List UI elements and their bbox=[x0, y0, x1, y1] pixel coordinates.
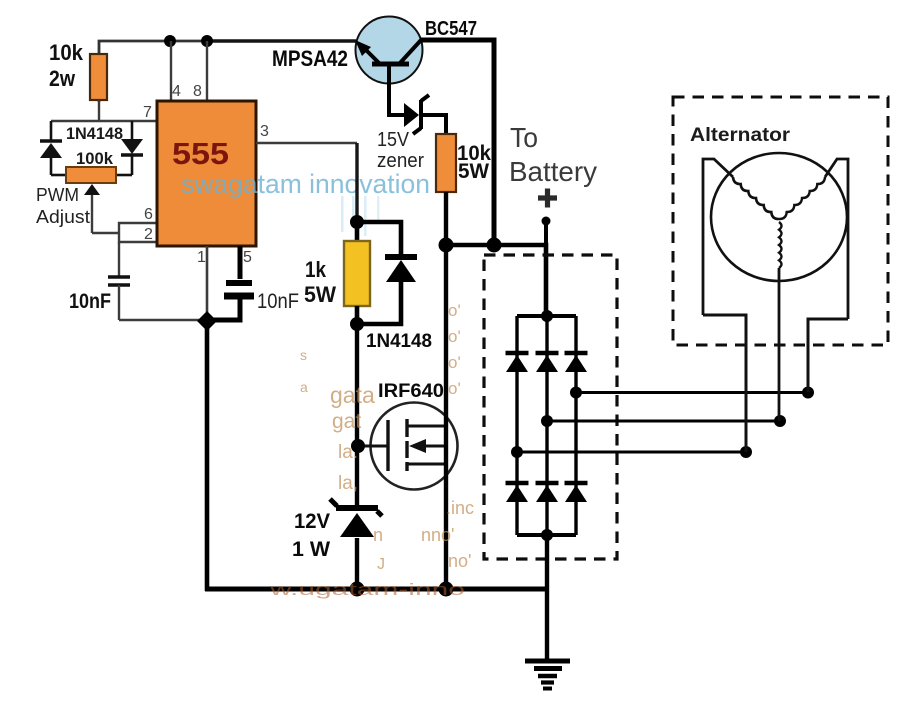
svg-text:gata: gata bbox=[330, 382, 375, 408]
svg-text:J: J bbox=[377, 556, 385, 573]
wire collector to battery line bbox=[420, 40, 494, 245]
svg-text:1 W: 1 W bbox=[292, 538, 330, 561]
wire 1k bottom to gate bbox=[355, 306, 360, 324]
svg-text:PWM: PWM bbox=[36, 185, 79, 205]
node battery tap dot bbox=[542, 217, 551, 226]
svg-text:o': o' bbox=[448, 379, 461, 398]
svg-text:4: 4 bbox=[172, 83, 181, 100]
wire pin7 rail bbox=[51, 120, 157, 122]
svg-text:o': o' bbox=[448, 301, 461, 320]
svg-text:BC547: BC547 bbox=[425, 18, 477, 40]
wire pin8 drop bbox=[206, 41, 208, 103]
wire left main vertical to bottom rail bbox=[205, 321, 210, 591]
node phase tap right bbox=[570, 387, 582, 399]
node phase end dot 1 bbox=[802, 387, 814, 399]
wire drain-source vertical bbox=[444, 245, 448, 591]
wire phase line 3 bbox=[517, 451, 746, 454]
svg-text:1k: 1k bbox=[305, 257, 327, 282]
wire pin3 vertical bbox=[355, 143, 358, 222]
wire node to capacitor C1 bbox=[118, 242, 120, 277]
wire positive rail bbox=[446, 245, 546, 316]
node drain rail dot bbox=[439, 238, 454, 253]
op-amp/timer U1 555 bbox=[157, 101, 256, 246]
svg-text:6: 6 bbox=[144, 206, 153, 223]
svg-text:n: n bbox=[373, 525, 383, 545]
wire bottom rail bbox=[205, 587, 547, 592]
svg-text:s: s bbox=[300, 347, 307, 363]
svg-text:gat: gat bbox=[332, 410, 361, 433]
transistor Q2 IRF640 mosfet bbox=[358, 403, 458, 490]
node junction ground of 555 bbox=[197, 311, 217, 331]
zener Z2 12V bbox=[330, 499, 382, 591]
svg-text:5: 5 bbox=[243, 249, 252, 266]
wire pin4 drop bbox=[170, 41, 172, 103]
watermark tan fragments bbox=[300, 301, 474, 573]
potentiometer R2 100k bbox=[51, 167, 132, 233]
wire resistor R1 to pin7 rail bbox=[98, 100, 100, 121]
svg-text:1N4148: 1N4148 bbox=[66, 124, 123, 143]
svg-text:5W: 5W bbox=[304, 282, 336, 307]
wire bridge right leg bbox=[574, 316, 577, 535]
svg-text:o': o' bbox=[448, 353, 461, 372]
wire alternator left bracket bottom bbox=[703, 315, 746, 452]
wire top rail bbox=[99, 41, 356, 102]
svg-text:5W: 5W bbox=[458, 160, 489, 183]
capacitor C2 10nF (pin5) bbox=[210, 246, 299, 320]
svg-text:MPSA42: MPSA42 bbox=[272, 46, 348, 71]
diode D5 bridge upper-right bbox=[565, 353, 588, 372]
wire pins 6-2 bracket bbox=[119, 223, 157, 242]
zener Z1 15V bbox=[389, 64, 446, 134]
svg-text:1N4148: 1N4148 bbox=[366, 331, 432, 352]
node phase tap middle bbox=[541, 415, 553, 427]
ground bbox=[525, 661, 570, 689]
node bridge minus dot bbox=[541, 529, 553, 541]
node junction dot top left bbox=[164, 35, 176, 47]
label To Battery bbox=[509, 122, 597, 208]
svg-text:10k: 10k bbox=[49, 40, 84, 65]
svg-text:zener: zener bbox=[377, 150, 424, 172]
svg-text:no': no' bbox=[448, 551, 471, 571]
node phase tap left bbox=[511, 446, 523, 458]
svg-text:2: 2 bbox=[144, 226, 153, 243]
svg-text:a: a bbox=[300, 379, 308, 395]
node junction dot top pin8 bbox=[201, 35, 213, 47]
svg-text:Battery: Battery bbox=[509, 156, 597, 187]
wire bridge minus to ground bbox=[545, 535, 549, 661]
svg-text:o': o' bbox=[448, 327, 461, 346]
diode D8 bridge lower-right bbox=[565, 483, 588, 502]
svg-text:10nF: 10nF bbox=[257, 290, 299, 313]
node bottom rail dot right bbox=[439, 582, 454, 597]
alternator stator circle bbox=[711, 153, 847, 281]
transistor Q1 MPSA42/BC547 bbox=[355, 17, 423, 84]
node bridge plus dot bbox=[541, 310, 553, 322]
diode D9 1N4148 (across 1k) bbox=[357, 222, 417, 324]
diode D2 1N4148 right bbox=[121, 121, 143, 175]
wire battery plus bbox=[544, 221, 548, 245]
wire phase line 1 bbox=[576, 391, 808, 394]
alternator dashed box bbox=[673, 97, 888, 345]
wire gate drive vertical bbox=[355, 324, 359, 508]
node below 1k dot bbox=[350, 317, 364, 331]
resistor R4 1k 5W bbox=[304, 222, 370, 307]
winding right arm bbox=[825, 159, 848, 319]
svg-text:To: To bbox=[510, 122, 538, 153]
svg-text:555: 555 bbox=[172, 136, 229, 171]
wire bridge bottom bar bbox=[517, 533, 576, 537]
bridge rectifier dashed box bbox=[484, 255, 617, 559]
svg-text:2w: 2w bbox=[49, 66, 76, 91]
svg-text:la,: la, bbox=[338, 473, 358, 494]
svg-text:nno': nno' bbox=[421, 525, 454, 545]
wire phase line 2 bbox=[547, 420, 780, 423]
svg-text:1: 1 bbox=[197, 249, 206, 266]
node bottom rail dot left bbox=[350, 582, 365, 597]
wire pin1 down bbox=[206, 246, 209, 321]
svg-text:Adjust: Adjust bbox=[36, 207, 90, 227]
svg-text:IRF640: IRF640 bbox=[378, 381, 444, 402]
diode D1 1N4148 left bbox=[40, 121, 62, 175]
diode D6 bridge lower-left bbox=[506, 483, 529, 502]
wire bridge left leg bbox=[515, 316, 518, 535]
svg-text:12V: 12V bbox=[294, 510, 330, 533]
resistor R1 10k 2w bbox=[49, 40, 107, 100]
svg-text:15V: 15V bbox=[377, 129, 410, 151]
wire wiper to pins 6/2 bbox=[92, 232, 119, 234]
svg-text:la.: la. bbox=[338, 442, 358, 463]
node collector rail dot bbox=[487, 238, 502, 253]
svg-text:100k: 100k bbox=[76, 149, 114, 168]
wire alternator right bracket bottom bbox=[808, 319, 848, 393]
diode D4 bridge upper-middle bbox=[536, 353, 559, 372]
svg-text:.inc: .inc bbox=[446, 498, 474, 518]
wire bridge middle leg bbox=[545, 316, 548, 535]
diode D3 bridge upper-left bbox=[506, 353, 529, 372]
wire R3 to drain rail bbox=[444, 192, 448, 245]
diode D7 bridge lower-middle bbox=[536, 483, 559, 502]
svg-text:swagatam innovation: swagatam innovation bbox=[181, 169, 430, 199]
label 15V zener bbox=[377, 129, 424, 172]
wire bridge top bar bbox=[517, 314, 576, 318]
label 12V 1W bbox=[292, 510, 330, 561]
node gate-drive dot bbox=[350, 215, 364, 229]
node phase end dot 2 bbox=[774, 415, 786, 427]
svg-text:10nF: 10nF bbox=[69, 290, 111, 313]
node phase end dot 3 bbox=[740, 446, 752, 458]
svg-text:Alternator: Alternator bbox=[690, 125, 791, 146]
svg-text:w.ugatam-inno: w.ugatam-inno bbox=[268, 580, 465, 599]
svg-text:3: 3 bbox=[260, 123, 269, 140]
node gate dot bbox=[351, 439, 365, 453]
capacitor C1 10nF bbox=[69, 277, 205, 320]
wire pin3 to gate node bbox=[256, 142, 357, 145]
svg-text:8: 8 bbox=[193, 83, 202, 100]
label PWM Adjust bbox=[36, 185, 90, 227]
winding bottom arm bbox=[779, 222, 782, 268]
resistor R3 10k 5W bbox=[436, 134, 491, 192]
svg-text:7: 7 bbox=[143, 104, 152, 121]
winding left arm bbox=[703, 159, 733, 315]
watermark swagatam innovation (blue) bbox=[181, 169, 430, 236]
